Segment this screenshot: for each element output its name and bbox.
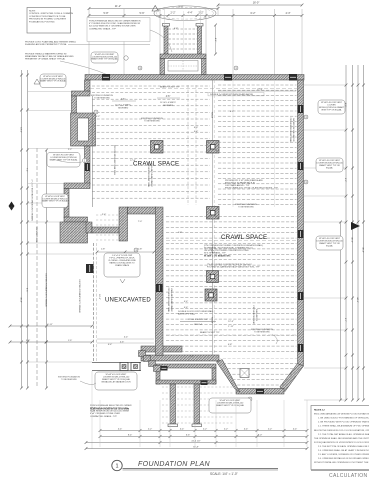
vent <box>289 74 297 81</box>
right dimension lines <box>345 65 347 400</box>
svg-text:FOUNDATION PLAN: FOUNDATION PLAN <box>138 461 211 468</box>
top dimension line segments <box>89 15 302 17</box>
keynote circles <box>138 66 142 70</box>
svg-text:10' GCL & W/ETC: 10' GCL & W/ETC <box>115 105 132 107</box>
svg-text:ABOVE (TYPICAL): ABOVE (TYPICAL) <box>178 313 195 316</box>
vent <box>298 105 304 113</box>
svg-text:2'-2": 2'-2" <box>68 149 73 151</box>
svg-text:4" POURED 3500 PSI CONC. SLAB: 4" POURED 3500 PSI CONC. SLAB REINFORCED… <box>89 22 141 25</box>
svg-text:ENCLOSED AREA BELOW DESIGN FLO: ENCLOSED AREA BELOW DESIGN FLOOD ELEVATI… <box>314 413 369 416</box>
svg-text:PROVIDE RESILIENT CHNL: PROVIDE RESILIENT CHNL <box>147 163 149 187</box>
svg-text:12' G4 1 W/ETC 1/4": 12' G4 1 W/ETC 1/4" <box>188 319 209 321</box>
svg-text:4'-6": 4'-6" <box>184 307 189 309</box>
svg-text:2.3. THE BOTTOM OF EACH OPENIN: 2.3. THE BOTTOM OF EACH OPENING SHALL BE… <box>318 445 369 448</box>
svg-text:FROM CRAWLS A J TYP. ALL PLATE: FROM CRAWLS A J TYP. ALL PLATE SECTION M… <box>225 187 278 190</box>
svg-text:1. BE USED SOLELY FOR PARKING: 1. BE USED SOLELY FOR PARKING OF VEHICLE… <box>318 417 369 420</box>
note bubble <box>47 153 80 168</box>
svg-text:1'-11": 1'-11" <box>228 326 234 328</box>
svg-text:INSTALLED AT GARAGE DOOR: INSTALLED AT GARAGE DOOR <box>101 381 131 384</box>
interior vertical wall <box>156 207 164 356</box>
svg-text:DOUBLE 2x UNDER KITCHEN ISLAND: DOUBLE 2x UNDER KITCHEN ISLAND ABOVE <box>210 93 254 96</box>
svg-text:FOR EQUALIZATION OF HYDROSTATI: FOR EQUALIZATION OF HYDROSTATIC FLOOD FO… <box>314 441 369 444</box>
svg-text:4'-4": 4'-4" <box>180 428 185 430</box>
property line <box>36 148 38 388</box>
porch foundation bottom band <box>156 380 216 384</box>
svg-text:4'-4": 4'-4" <box>184 301 189 303</box>
svg-text:PROVIDE RESILIENT CHNL: PROVIDE RESILIENT CHNL <box>289 118 291 142</box>
joists porch area <box>162 386 234 388</box>
svg-text:PROVIDE TRIBUILD WATERPROOFING: PROVIDE TRIBUILD WATERPROOFING W/ <box>25 53 67 56</box>
svg-text:PROVIDE CONT. FOAM SEAL AND TE: PROVIDE CONT. FOAM SEAL AND TERMITE SHIE… <box>25 41 77 44</box>
svg-text:W 34W x 173 BEAMS W/C: W 34W x 173 BEAMS W/C <box>204 255 231 258</box>
garage extension line <box>91 371 93 449</box>
pier P4 <box>207 271 219 283</box>
svg-text:6'-11": 6'-11" <box>47 324 53 326</box>
svg-text:PORCH FINISH AS SELECTED BY OW: PORCH FINISH AS SELECTED BY OWNER <box>90 404 132 407</box>
svg-text:SLAB REINFORCED W/ 6x6 10/10 W: SLAB REINFORCED W/ 6x6 10/10 WWM <box>90 408 129 411</box>
svg-text:SCALE: 1/4" = 1'-0": SCALE: 1/4" = 1'-0" <box>210 472 238 476</box>
fireplace base right band <box>202 59 207 75</box>
double joist verticals upper-left <box>187 85 189 205</box>
note box top-left <box>27 8 71 34</box>
pier P1 left <box>151 141 164 154</box>
bottom dimension lines <box>100 430 307 432</box>
svg-text:6'-2": 6'-2" <box>344 178 346 183</box>
svg-text:RULES 2.2: RULES 2.2 <box>314 410 326 412</box>
porch vent <box>161 366 168 371</box>
flag arrow right <box>351 222 360 230</box>
svg-text:6'-2": 6'-2" <box>230 111 235 113</box>
joists above unexcavated <box>96 214 118 216</box>
left extension lines <box>28 91 91 93</box>
vent <box>86 264 94 273</box>
bay pier <box>240 369 249 378</box>
svg-text:2'-2": 2'-2" <box>148 428 153 430</box>
svg-text:TO BE REMOVED: TO BE REMOVED <box>238 207 254 209</box>
joists upper-left crawl <box>92 85 210 87</box>
fireplace dim line right <box>215 25 217 54</box>
warning triangle top <box>152 6 158 12</box>
north arrow left <box>9 202 15 211</box>
left wall segment 4 <box>64 189 69 218</box>
pier P2 <box>207 141 220 154</box>
porch foundation left band <box>156 368 160 384</box>
svg-text:CONSTRUCTION PRACTICE TO BE: CONSTRUCTION PRACTICE TO BE <box>29 15 66 18</box>
svg-text:4'-6": 4'-6" <box>121 99 126 101</box>
svg-text:9'-0": 9'-0" <box>258 434 263 436</box>
svg-text:61'-8": 61'-8" <box>193 446 199 448</box>
vent <box>298 344 304 352</box>
svg-text:6'-7": 6'-7" <box>344 318 346 323</box>
svg-text:6'-2": 6'-2" <box>251 12 256 15</box>
svg-text:1'-8": 1'-8" <box>101 249 106 251</box>
fireplace joists <box>169 28 198 30</box>
svg-text:W8x18: W8x18 <box>211 317 213 324</box>
svg-text:6'-6": 6'-6" <box>186 434 191 436</box>
svg-text:17'-8": 17'-8" <box>130 160 136 162</box>
beam pocket dashed line below top wall <box>90 88 297 90</box>
svg-text:2'-2": 2'-2" <box>268 428 273 430</box>
svg-text:TO BE REMOVED: TO BE REMOVED <box>254 332 270 334</box>
svg-text:2.1. THERE SHALL BE A MINIMUM: 2.1. THERE SHALL BE A MINIMUM OF TWO OPE… <box>318 425 369 428</box>
unexcavated top dim line <box>97 251 154 253</box>
bay left diagonal wall <box>217 360 240 393</box>
svg-text:10' GCL & W/ETC: 10' GCL & W/ETC <box>160 102 177 104</box>
svg-text:COMPACTED GRADE - TYP: COMPACTED GRADE - TYP <box>89 27 117 30</box>
svg-text:VENT TYP OR EQUAL: VENT TYP OR EQUAL <box>321 109 342 112</box>
svg-text:16'-0": 16'-0" <box>253 1 260 5</box>
note bubble <box>95 372 137 390</box>
svg-text:EXISTING FOUNDATION: EXISTING FOUNDATION <box>251 328 273 331</box>
svg-text:BELOW THE DESIGN FLOOD: F: BELOW THE DESIGN FLOOD: FLOOD ELEVATION,… <box>314 429 369 432</box>
porch foundation right band <box>212 368 216 384</box>
svg-text:UNEXCAVATED: UNEXCAVATED <box>105 298 151 304</box>
vent <box>298 230 304 238</box>
svg-text:EXISTING FOUNDATION: EXISTING FOUNDATION <box>91 94 113 97</box>
left step band <box>64 217 88 222</box>
svg-text:CLOSING/ - INSULATED FIRE: CLOSING/ - INSULATED FIRE <box>108 259 136 262</box>
svg-text:EQUAL: EQUAL <box>326 167 334 170</box>
svg-text:9'-8": 9'-8" <box>178 4 183 8</box>
svg-text:SMART VENT TYP OR EQUAL: SMART VENT TYP OR EQUAL <box>42 200 69 203</box>
svg-text:1'-8": 1'-8" <box>138 249 143 251</box>
interior step wall vertical <box>86 222 92 233</box>
vent <box>85 163 90 171</box>
svg-text:4'-4": 4'-4" <box>188 12 193 15</box>
vent <box>102 74 110 81</box>
svg-text:17'-3": 17'-3" <box>257 89 263 91</box>
svg-text:1'-5": 1'-5" <box>68 340 73 342</box>
vent <box>298 292 304 300</box>
porch pier right <box>194 384 200 424</box>
svg-text:3'-0": 3'-0" <box>238 235 243 237</box>
svg-text:11'-2": 11'-2" <box>115 4 121 8</box>
interior step corner block <box>119 207 128 241</box>
svg-text:7'-1": 7'-1" <box>26 168 28 173</box>
svg-text:SMART VENT TYP OR EQUAL: SMART VENT TYP OR EQUAL <box>40 80 67 83</box>
svg-text:4'-1": 4'-1" <box>214 38 216 43</box>
title circle 1 <box>112 460 122 470</box>
svg-text:CONTROL JOINTS PER CODE & COMM: CONTROL JOINTS PER CODE & COMMON <box>29 13 73 15</box>
porch vent <box>201 381 208 386</box>
svg-text:4'-4": 4'-4" <box>190 356 195 358</box>
inner wall face line <box>92 96 94 207</box>
svg-text:46'-4": 46'-4" <box>362 247 364 253</box>
note bubble <box>104 253 140 277</box>
svg-text:5'-2": 5'-2" <box>96 116 101 118</box>
left wall jog 2 <box>64 183 90 189</box>
svg-text:RATED DOOR ACCESS TO: RATED DOOR ACCESS TO <box>109 262 135 265</box>
right extension lines <box>304 84 346 86</box>
svg-text:SMART VENT TYP OR: SMART VENT TYP OR <box>319 164 340 167</box>
svg-text:GB W/MED: GB W/MED <box>118 108 129 110</box>
svg-text:4"x4" CRUSHED STONE OVER: 4"x4" CRUSHED STONE OVER <box>90 413 120 415</box>
svg-text:WITHOUT INSTALLED OPENINGS DO: WITHOUT INSTALLED OPENINGS DO NOT MEET T… <box>314 461 369 464</box>
svg-text:16'-6": 16'-6" <box>98 294 100 300</box>
svg-text:2.4. OPENINGS SHALL BE AT LEAS: 2.4. OPENINGS SHALL BE AT LEAST 3 INCHES… <box>318 449 369 452</box>
svg-text:2'-2": 2'-2" <box>203 428 208 430</box>
note bubble <box>316 236 343 250</box>
note bubble <box>316 158 343 172</box>
svg-text:4'-6": 4'-6" <box>166 96 171 98</box>
unexcavated bottom lines <box>97 338 154 340</box>
pier P3 <box>207 207 220 220</box>
garage opening lines <box>92 362 141 364</box>
svg-text:SMART VENT TYP OR: SMART VENT TYP OR <box>319 242 340 245</box>
svg-text:7'-0": 7'-0" <box>138 221 143 223</box>
note bubble <box>91 52 118 63</box>
left wall segment 3 <box>85 146 91 184</box>
existing foundation dashed boundary <box>93 243 95 362</box>
svg-text:12'-3": 12'-3" <box>228 321 234 323</box>
svg-text:9'-5": 9'-5" <box>26 288 28 293</box>
svg-text:FOOTING W/ 2(ARRIDINE EACH WAY: FOOTING W/ 2(ARRIDINE EACH WAY AT BOTTOM… <box>207 266 260 269</box>
svg-text:FLASHING AROUND PERIMETER TYPI: FLASHING AROUND PERIMETER TYPICAL <box>25 43 68 46</box>
svg-text:2.5. ANY LOUVERS, SCREENS OR O: 2.5. ANY LOUVERS, SCREENS OR OTHER OPENI… <box>318 453 369 456</box>
porch foundation top band <box>156 364 216 368</box>
svg-text:4'-6": 4'-6" <box>120 341 125 343</box>
svg-text:EQUAL: EQUAL <box>326 245 334 248</box>
svg-text:44'-6": 44'-6" <box>356 297 358 303</box>
svg-text:4'-6": 4'-6" <box>194 131 199 133</box>
top dimension line 11ft-2 <box>89 8 218 10</box>
svg-text:SMART VENT TYP OR EQUAL: SMART VENT TYP OR EQUAL <box>91 58 118 61</box>
left dimension lines <box>21 70 23 388</box>
svg-text:BEAM POCKET TYP: BEAM POCKET TYP <box>160 86 180 89</box>
vent <box>156 284 163 292</box>
vent <box>298 162 304 170</box>
note bubble <box>209 398 251 413</box>
svg-text:SMART VENT TYP OR EQUAL: SMART VENT TYP OR EQUAL <box>216 404 245 407</box>
svg-text:PROPERTY LINE: PROPERTY LINE <box>35 227 37 244</box>
svg-text:CALCULATION REQUIR: CALCULATION REQUIR <box>329 473 369 479</box>
note bubble <box>42 194 68 208</box>
note bubble <box>40 74 66 88</box>
svg-text:36'-4": 36'-4" <box>20 297 22 303</box>
svg-text:5'-8": 5'-8" <box>104 12 109 15</box>
bottom wall left of bay <box>141 355 219 361</box>
svg-text:2'-2": 2'-2" <box>171 12 176 15</box>
svg-text:1'-8": 1'-8" <box>178 232 183 234</box>
vent <box>256 389 264 394</box>
svg-text:2. BE PROVIDED WITH FLOOD OPEN: 2. BE PROVIDED WITH FLOOD OPENINGS THAT … <box>318 421 369 424</box>
dimension extension lines from top <box>88 9 90 74</box>
fireplace bump-out left wall <box>164 25 168 54</box>
svg-text:NOTE:: NOTE: <box>29 10 36 12</box>
left wall upper segment <box>85 80 91 93</box>
svg-text:MIRADRAIN/ DELTA FLT BELOW GR: MIRADRAIN/ DELTA FLT BELOW GRADE AROUND <box>25 55 74 58</box>
garage pier block <box>120 363 128 371</box>
bay bottom wall <box>236 389 284 395</box>
svg-text:PROVIDE RESILIENT: PROVIDE RESILIENT <box>252 306 254 326</box>
fireplace base top band <box>160 54 206 59</box>
svg-text:EXISTING FOUNDATION: EXISTING FOUNDATION <box>141 117 163 120</box>
interior extension lines <box>232 80 234 207</box>
svg-text:W8x18: W8x18 <box>211 112 213 119</box>
svg-text:MODEL@TWS-100 SMART: MODEL@TWS-100 SMART <box>319 106 345 109</box>
svg-text:41'-4 1/2": 41'-4 1/2" <box>191 440 200 442</box>
fireplace bump-out right wall <box>198 25 202 54</box>
left wall segment 2 <box>72 96 77 113</box>
svg-text:6'-8": 6'-8" <box>174 28 179 30</box>
center beam line <box>212 80 214 355</box>
svg-text:TO BE REMOVED: TO BE REMOVED <box>94 98 110 100</box>
svg-text:THE OPENINGS SHALL BE DESIGNED: THE OPENINGS SHALL BE DESIGNED AND THE C… <box>314 437 369 440</box>
svg-text:4'-8": 4'-8" <box>228 344 233 346</box>
svg-text:2'-4": 2'-4" <box>102 214 107 216</box>
bottom extension lines <box>99 400 101 447</box>
svg-text:4'-4": 4'-4" <box>118 428 123 430</box>
svg-text:4'-4": 4'-4" <box>124 337 129 339</box>
svg-text:SMART VENT TYP OR EQUAL: SMART VENT TYP OR EQUAL <box>49 159 78 162</box>
note bubble <box>318 100 345 114</box>
firebox inner <box>168 61 198 72</box>
svg-text:4'-0": 4'-0" <box>194 127 199 129</box>
interior wall A <box>141 346 182 352</box>
svg-text:2'-2": 2'-2" <box>224 428 229 430</box>
svg-text:PROVIDE RESILIENT CHNL: PROVIDE RESILIENT CHNL <box>167 288 169 312</box>
svg-text:41'-6": 41'-6" <box>351 237 353 243</box>
svg-text:FOUNDATION, FOOTING: FOUNDATION, FOOTING <box>29 20 55 23</box>
revision cloud top <box>154 6 216 21</box>
svg-text:3'-4": 3'-4" <box>98 229 103 231</box>
svg-text:EXISTING FOUNDATION: EXISTING FOUNDATION <box>235 203 257 206</box>
svg-text:TO BE REMOVED: TO BE REMOVED <box>61 379 77 381</box>
rules box <box>311 406 369 470</box>
garage stoop block <box>60 222 88 243</box>
title underline <box>123 468 279 470</box>
svg-text:COMPACTED GRADE - TYP: COMPACTED GRADE - TYP <box>90 415 118 418</box>
svg-text:CRAWL SPACE: CRAWL SPACE <box>221 234 267 241</box>
svg-text:PERIMETER OF CRAWL SPACE TYPIC: PERIMETER OF CRAWL SPACE TYPICAL <box>25 58 66 61</box>
svg-text:GB W/MED: GB W/MED <box>163 105 174 107</box>
svg-text:OR 10'x2: OR 10'x2 <box>194 324 203 326</box>
svg-text:4'-4": 4'-4" <box>108 344 113 346</box>
joists upper-right crawl <box>218 84 297 86</box>
svg-text:PORCH FINISH AS SELECTED BY OW: PORCH FINISH AS SELECTED BY OWNER PAVER … <box>89 20 141 23</box>
pier P5 <box>205 289 217 301</box>
interior step band <box>92 227 126 233</box>
left wall jog 1 <box>72 91 91 96</box>
chimney block left <box>71 113 96 146</box>
right wall <box>298 80 304 366</box>
svg-text:TO BE REMOVED: TO BE REMOVED <box>144 121 160 123</box>
svg-text:5'-6": 5'-6" <box>140 12 145 15</box>
svg-text:W/ 3 #N REBARS - TYP: W/ 3 #N REBARS - TYP <box>204 252 226 255</box>
svg-text:2'-2": 2'-2" <box>199 12 204 15</box>
garage pier block <box>131 363 140 371</box>
svg-text:EXISTING FOUNDATION: EXISTING FOUNDATION <box>58 376 80 379</box>
svg-text:BEAM POCKET TYP: BEAM POCKET TYP <box>200 331 220 334</box>
svg-text:1: 1 <box>115 464 118 470</box>
vent <box>224 74 232 81</box>
svg-text:5'-6": 5'-6" <box>26 340 31 342</box>
step footing stairs <box>139 351 146 357</box>
svg-text:SMART VENT TYP OR EQUAL: SMART VENT TYP OR EQUAL <box>102 378 131 381</box>
joists lower crawl <box>166 216 297 218</box>
svg-text:4'-4": 4'-4" <box>293 428 298 430</box>
note porch finish top <box>87 18 150 42</box>
svg-text:PROVIDED IN POURED CONCRETE: PROVIDED IN POURED CONCRETE <box>29 19 67 21</box>
interior band to crawl wall <box>128 207 157 214</box>
bay right diagonal wall <box>280 364 304 392</box>
svg-text:CRAWL SPACE: CRAWL SPACE <box>133 161 179 168</box>
svg-text:2.6. OPENINGS INSTALLED IN DOO: 2.6. OPENINGS INSTALLED IN DOORS AND WIN… <box>318 457 369 460</box>
bottom-left dimension lines <box>10 325 92 327</box>
svg-text:4'-3": 4'-3" <box>286 12 291 15</box>
porch pier left <box>170 384 176 424</box>
svg-text:8'-4": 8'-4" <box>128 434 133 436</box>
svg-text:2.2. THE TOTAL NET AREA OF ALL: 2.2. THE TOTAL NET AREA OF ALL OPENINGS … <box>318 433 369 436</box>
svg-text:4'-4": 4'-4" <box>244 428 249 430</box>
top dimension line 16ft <box>218 4 302 6</box>
fireplace base left band <box>160 59 165 75</box>
svg-text:CRAWL SPACE: CRAWL SPACE <box>115 264 130 267</box>
main top wall <box>85 75 304 81</box>
svg-text:14'-6": 14'-6" <box>20 127 22 133</box>
